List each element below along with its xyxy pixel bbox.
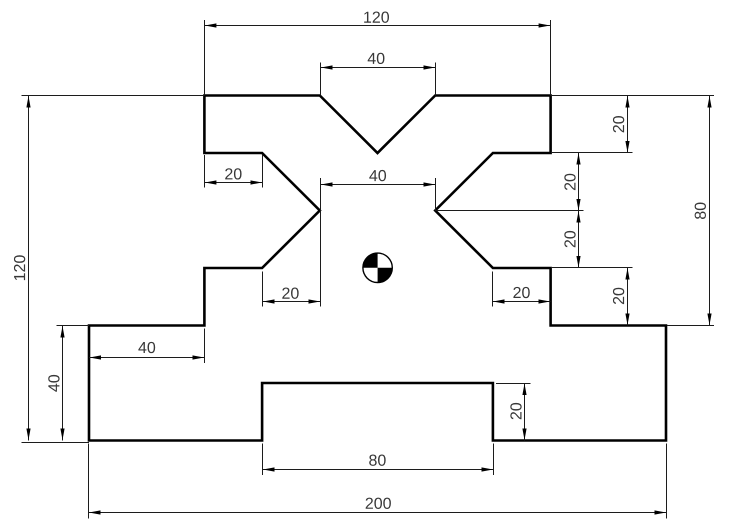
- dimension 20 right lower-middle: [564, 211, 580, 268]
- dimension 80 bottom: [263, 444, 494, 476]
- dimension 200 bottom: [89, 444, 667, 519]
- centroid symbol: [363, 253, 392, 282]
- dimension 20 notch depth: [496, 383, 531, 441]
- part outline: [89, 96, 666, 441]
- dimension 40 lower-left horizontal: [89, 329, 205, 364]
- dimension 120 left: [14, 96, 204, 443]
- dimension 20 upper left: [205, 155, 263, 188]
- dimension 20 right top: [613, 96, 630, 153]
- dimension 20 lower right: [493, 272, 551, 307]
- dimension 80 right: [695, 96, 712, 326]
- extension line right y100: [552, 152, 633, 154]
- dimension 20 right upper-middle: [564, 153, 580, 211]
- dimension 20 lower left: [263, 272, 321, 307]
- extension line right top: [552, 95, 714, 97]
- extension line right y40: [667, 325, 714, 327]
- dimension 40 left vertical: [48, 326, 89, 441]
- dimension 120 top: [204, 12, 550, 96]
- dimension 40 v-notch: [320, 53, 436, 96]
- extension line right y60: [552, 267, 633, 269]
- dimension 40 middle: [321, 170, 436, 307]
- extension line right apex y80: [436, 210, 584, 212]
- dimension 20 right bottom: [613, 268, 630, 326]
